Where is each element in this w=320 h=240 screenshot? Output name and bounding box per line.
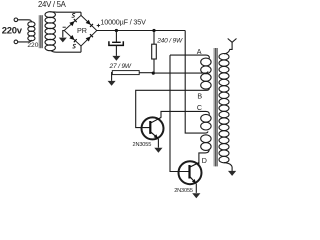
transformer T1 secondary coil [45,12,55,51]
svg-text:B: B [197,92,202,100]
minus sign (bridge negative) [63,26,66,28]
capacitor C1 10000uF/35V [109,41,123,45]
Q1 base bar [149,121,151,134]
T2 winding section C (2 loops) [201,114,211,130]
wire supply to midtap CD [185,31,208,134]
Q1 collector line [150,117,161,123]
wire A to Q2 base (V1) [170,55,189,171]
wire R1 bottom [153,59,155,73]
wire secondary bottom to ground [224,163,232,171]
wire secondary-bottom to bridge AC2 [51,50,81,52]
transistor Q2 circle [179,161,202,184]
label 24V / 5A [38,0,67,9]
wire feedback midtap AB [153,71,208,73]
diode D1 (minus to AC1) [69,19,76,26]
ground (R2) [108,81,116,86]
label 27 / 9W [109,63,132,70]
label B [197,92,202,100]
ground (bridge minus) [59,38,67,43]
ground (T2 secondary) [228,171,236,176]
wire tap B [136,88,210,127]
wire stub bridge AC2 [80,46,82,52]
Q1 emitter line [150,132,158,139]
wire tap D to Q2 collector [199,149,209,165]
svg-text:A: A [197,48,202,56]
wire terminal-bottom to primary [18,40,32,42]
wire bridge minus to ground [63,31,64,38]
transformer T2 core [214,48,217,166]
transformer T1 primary coil [28,22,35,41]
label 2N3055 (Q2) [174,188,193,194]
diode D2 (AC1 to plus) [86,20,93,27]
ground (capacitor) [112,56,120,61]
T2 winding section C2 (2 loops) [201,135,211,151]
ground (Q1 emitter) [154,148,162,153]
label 220v [2,25,23,36]
svg-text:220: 220 [27,42,38,49]
wire top rail (+) to V2 corner [97,30,185,32]
terminal bottom-left (220v neutral) [14,40,18,44]
svg-text:220v: 220v [2,25,23,36]
label 2N3055 (Q1) [133,142,152,148]
wire R2 left to ground [111,73,114,81]
wire cap top [115,31,117,42]
resistor R2 27/9W body [112,71,139,75]
transistor Q1 circle [142,117,164,139]
resistor R1 240/9W body [152,44,157,59]
wire secondary top to antenna [224,42,232,54]
wire tap C from Q1 collector [161,111,209,117]
node junction R1 top [152,29,155,32]
svg-text:27 / 9W: 27 / 9W [109,63,132,70]
T2 winding section A2 (2 loops) [201,74,211,90]
svg-text:2N3055: 2N3055 [174,188,193,194]
bridge rectifier PR outline [64,15,97,46]
label C [197,104,202,112]
diode D3 (minus to AC2) [69,35,76,42]
label 10000uF / 35V [100,18,146,27]
wire R2 right to junction [139,72,154,74]
label PR [77,26,87,35]
T2 secondary coil [219,54,229,163]
node junction cap [115,29,118,32]
T2 winding section A (2 loops) [201,58,211,74]
terminal top-left (220v line) [14,18,18,22]
ground (Q2 emitter) [192,193,200,198]
node junction R1/R2/feedback [152,72,155,75]
wire R1 top [153,31,155,45]
plus sign (bridge positive) [97,24,100,27]
sine mark AC1 [72,13,76,17]
antenna [228,39,237,43]
wire stub bridge AC1 [80,12,82,15]
Q2 base bar [188,165,190,179]
svg-text:10000µF / 35V: 10000µF / 35V [100,18,146,27]
diode D4 (AC2 to plus) [86,34,93,41]
svg-text:PR: PR [77,26,87,35]
wire cap bottom [115,45,117,56]
transformer T1 core [39,15,42,48]
label D [202,157,207,165]
svg-text:2N3055: 2N3055 [133,142,152,148]
wire Q2 emitter to ground [195,184,197,193]
svg-text:240 / 9W: 240 / 9W [156,38,183,45]
wire secondary-top to bridge AC1 [50,11,81,13]
label 220 (primary) [27,42,38,49]
label A [197,48,202,56]
Q2 emitter line [190,176,197,183]
svg-text:24V / 5A: 24V / 5A [38,0,67,9]
Q2 collector line [190,163,199,168]
wire tap A [170,55,209,58]
svg-text:D: D [202,157,207,165]
wire Q1 emitter to ground [157,139,159,148]
sine mark AC2 [72,44,76,48]
wire terminal-top to primary [18,20,32,22]
svg-text:C: C [197,104,202,112]
label 240 / 9W [156,38,183,45]
